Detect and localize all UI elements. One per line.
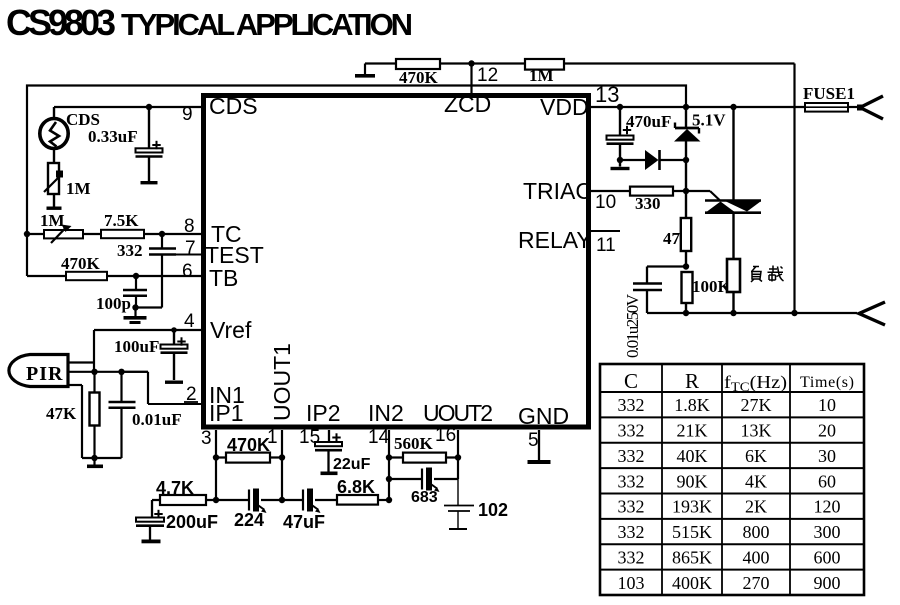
resistor 47: [681, 191, 691, 267]
svg-text:IP2: IP2: [306, 400, 341, 426]
potentiometer 1M vertical: [44, 149, 63, 210]
svg-text:4: 4: [184, 311, 195, 332]
wire TEST stub pin 7: [176, 254, 203, 256]
wire pin 15 22uF: [328, 430, 330, 442]
svg-text:Vref: Vref: [210, 317, 252, 343]
pin number 12: [477, 65, 498, 86]
wire 683 row: [389, 478, 458, 480]
wire TB line pin 6: [27, 275, 203, 277]
svg-text:683: 683: [411, 489, 438, 506]
svg-text:332: 332: [618, 421, 645, 441]
svg-text:224: 224: [234, 510, 264, 530]
pin number 7: [185, 238, 196, 259]
title text CS9803 TYPICAL APPLICATION: [6, 2, 413, 43]
svg-text:R: R: [685, 369, 699, 393]
pin number 15: [299, 427, 320, 448]
label 1M horizontal pot: [40, 211, 65, 230]
label 224: [234, 510, 264, 530]
pin label UOUT1: [269, 343, 295, 421]
label 470uF: [626, 112, 671, 131]
pin label IP1: [209, 400, 244, 426]
resistor 330: [630, 187, 673, 196]
pin label IP2: [306, 400, 341, 426]
pin number 6: [182, 261, 193, 282]
wire pin 5 GND: [538, 430, 540, 460]
label 1M vertical pot: [66, 179, 91, 198]
label 100p: [96, 294, 131, 313]
svg-text:200uF: 200uF: [166, 512, 218, 532]
wire signal row: [152, 499, 389, 501]
svg-text:515K: 515K: [672, 522, 712, 542]
svg-text:IP1: IP1: [209, 400, 244, 426]
wire 332 to ground: [132, 304, 162, 310]
pin label RELAY: [518, 227, 592, 253]
svg-text:Time(s): Time(s): [800, 374, 854, 391]
label 470K left: [61, 254, 101, 273]
svg-text:13K: 13K: [741, 421, 772, 441]
pin number 3: [201, 428, 212, 449]
svg-text:IN2: IN2: [368, 400, 404, 426]
pin number 13: [595, 82, 619, 107]
zener diode 5.1V: [674, 107, 701, 191]
pin number 5: [528, 430, 539, 451]
pin number 4: [184, 311, 195, 332]
label CDS: [66, 110, 100, 129]
pin label GND: [518, 403, 569, 429]
svg-text:332: 332: [618, 547, 645, 567]
svg-text:12: 12: [477, 65, 498, 86]
label load chinese: [751, 266, 784, 283]
node 12 junction: [468, 60, 474, 66]
label 200uF: [166, 512, 218, 532]
label 330: [635, 194, 661, 213]
svg-text:470K: 470K: [227, 435, 270, 455]
label 0.33uF: [88, 127, 138, 146]
node TB junction: [133, 273, 139, 279]
node 47 bottom junction: [683, 263, 689, 269]
resistor 470K bottom: [226, 453, 270, 463]
capacitor 100uF: [161, 330, 188, 384]
svg-text:7.5K: 7.5K: [104, 211, 139, 230]
svg-text:102: 102: [478, 500, 508, 520]
svg-text:3: 3: [201, 428, 212, 449]
svg-text:7: 7: [185, 238, 196, 259]
svg-text:PIR: PIR: [26, 363, 63, 385]
resistor 470K left: [66, 272, 107, 280]
capacitor 224: [249, 489, 267, 514]
capacitor 22uF: [315, 433, 342, 475]
label 332: [117, 241, 143, 260]
resistor 6.8K: [337, 495, 378, 505]
svg-text:332: 332: [618, 471, 645, 491]
svg-text:14: 14: [368, 427, 390, 448]
svg-text:21K: 21K: [677, 421, 708, 441]
pin label IN1: [209, 382, 245, 408]
wire Vref line pin 4: [94, 329, 203, 331]
svg-text:1M: 1M: [40, 211, 65, 230]
capacitor 332: [149, 234, 176, 308]
pin number 16: [435, 425, 456, 446]
svg-text:332: 332: [618, 395, 645, 415]
ground 100p: [124, 308, 147, 325]
svg-text:100p: 100p: [96, 294, 131, 313]
label 560K: [394, 434, 434, 453]
svg-text:4K: 4K: [745, 471, 767, 491]
wire 470K to 1M: [440, 62, 525, 64]
table rows: [618, 395, 841, 593]
label 470K top: [399, 68, 439, 87]
label 1M top: [529, 66, 554, 85]
capacitor 0.01uF: [109, 372, 136, 458]
ground PIR: [87, 458, 103, 468]
svg-text:RELAY: RELAY: [518, 227, 592, 253]
wire pin 16 vertical: [455, 430, 461, 479]
pin label IN2: [368, 400, 404, 426]
pin number 1: [267, 427, 278, 448]
sensor PIR body: [9, 355, 68, 387]
pin label TRIAC: [523, 178, 592, 204]
svg-text:330: 330: [635, 194, 661, 213]
wire PIR top lead: [68, 361, 94, 363]
potentiometer 1M horizontal: [44, 225, 83, 244]
resistor 100K: [682, 272, 693, 313]
label 100K: [692, 277, 732, 296]
svg-text:470uF: 470uF: [626, 112, 671, 131]
capacitor 102: [444, 479, 474, 529]
svg-text:100uF: 100uF: [114, 337, 159, 356]
svg-text:FUSE1: FUSE1: [803, 84, 855, 103]
svg-text:CS9803: CS9803: [6, 2, 116, 43]
svg-text:400: 400: [743, 547, 770, 567]
label PIR: [26, 363, 63, 385]
wire PIR case lead: [68, 385, 82, 458]
label 47K: [46, 404, 77, 423]
svg-text:TYPICAL APPLICATION: TYPICAL APPLICATION: [121, 7, 413, 42]
wire VDD line pin 13: [591, 106, 805, 108]
wire pin 3 vertical: [213, 430, 219, 503]
svg-text:C: C: [624, 369, 638, 393]
label 22uF: [333, 456, 371, 473]
node 0.33uF junction: [146, 104, 152, 110]
svg-text:UOUT2: UOUT2: [423, 400, 493, 426]
svg-text:16: 16: [435, 425, 456, 446]
label 683: [411, 489, 438, 506]
svg-text:TB: TB: [209, 265, 238, 291]
capacitor 200uF: [136, 500, 164, 543]
svg-text:0.01uF: 0.01uF: [132, 410, 182, 429]
svg-text:47: 47: [663, 229, 681, 248]
pin label TEST: [205, 242, 264, 268]
svg-text:11: 11: [596, 235, 616, 256]
svg-text:332: 332: [618, 446, 645, 466]
svg-text:47uF: 47uF: [283, 512, 325, 532]
op-amp U1 CS9803 IC box: [204, 96, 589, 428]
pin label TB: [209, 265, 238, 291]
svg-text:5: 5: [528, 430, 539, 451]
ground top 470K: [355, 64, 375, 78]
node 100uF junction: [171, 327, 177, 333]
pin number 2: [184, 384, 198, 405]
svg-text:120: 120: [814, 497, 841, 517]
resistor 4.7K: [160, 495, 206, 505]
pin number 8: [184, 216, 195, 237]
svg-text:600: 600: [814, 547, 841, 567]
table header: [624, 369, 854, 394]
wire ground to 470K: [365, 62, 396, 64]
svg-text:CDS: CDS: [209, 93, 258, 119]
pin label UOUT2: [423, 400, 493, 426]
svg-text:1M: 1M: [66, 179, 91, 198]
resistor 560K: [403, 453, 446, 463]
svg-text:100K: 100K: [692, 277, 732, 296]
capacitor 100p: [123, 276, 147, 308]
wire TC line pin 8: [27, 233, 203, 235]
svg-text:6: 6: [182, 261, 193, 282]
label 4.7K: [156, 478, 194, 498]
svg-text:4.7K: 4.7K: [156, 478, 194, 498]
label 0.01u250V: [623, 293, 642, 358]
svg-text:47K: 47K: [46, 404, 77, 423]
pin label VDD: [540, 94, 589, 120]
svg-text:30: 30: [818, 446, 836, 466]
pin number 9: [182, 104, 193, 125]
svg-text:6K: 6K: [745, 446, 767, 466]
label 0.01uF: [132, 410, 182, 429]
svg-text:470K: 470K: [61, 254, 101, 273]
svg-text:332: 332: [117, 241, 143, 260]
svg-text:ZCD: ZCD: [444, 91, 491, 117]
svg-text:VDD: VDD: [540, 94, 589, 120]
svg-text:GND: GND: [518, 403, 569, 429]
wire RELAY stub pin 11: [591, 230, 620, 232]
svg-text:2K: 2K: [745, 497, 767, 517]
svg-text:0.33uF: 0.33uF: [88, 127, 138, 146]
svg-text:800: 800: [743, 522, 770, 542]
label 7.5K: [104, 211, 139, 230]
capacitor 470uF: [607, 107, 634, 170]
svg-text:900: 900: [814, 573, 841, 593]
label 6.8K: [337, 477, 375, 497]
label 47uF: [283, 512, 325, 532]
wire TRIAC stub pin 10: [591, 190, 630, 192]
svg-text:193K: 193K: [672, 497, 712, 517]
wire PIR bottom lead: [68, 369, 148, 375]
svg-text:0.01u250V: 0.01u250V: [623, 293, 642, 358]
wire 330 to gate: [673, 188, 720, 200]
svg-text:865K: 865K: [672, 547, 712, 567]
svg-text:1.8K: 1.8K: [674, 395, 710, 415]
capacitor 683: [422, 468, 440, 493]
svg-text:90K: 90K: [677, 471, 708, 491]
diode D1: [617, 150, 689, 170]
svg-text:560K: 560K: [394, 434, 434, 453]
fuse FUSE1: [805, 103, 857, 112]
pin label TC: [211, 221, 242, 247]
svg-text:60: 60: [818, 471, 836, 491]
capacitor 0.01u 250V: [633, 267, 662, 314]
wire 560K row: [389, 456, 458, 458]
node TC junction: [159, 231, 165, 237]
svg-text:40K: 40K: [677, 446, 708, 466]
wire pin 14 vertical: [386, 430, 392, 503]
svg-text:10: 10: [595, 192, 616, 213]
pin number 10: [595, 192, 616, 213]
svg-text:470K: 470K: [399, 68, 439, 87]
resistor load fuzai: [727, 259, 740, 313]
pin label ZCD: [444, 91, 491, 117]
node junction left rail / TC line: [24, 231, 30, 237]
resistor 1M top: [525, 59, 564, 70]
svg-text:6.8K: 6.8K: [337, 477, 375, 497]
resistor 7.5K: [101, 230, 144, 238]
label 470K bottom: [227, 435, 270, 455]
svg-text:UOUT1: UOUT1: [269, 343, 295, 421]
wire pin 2 IN1: [122, 372, 204, 404]
pin label Vref: [210, 317, 252, 343]
triac Q1: [705, 107, 761, 259]
svg-text:300: 300: [814, 522, 841, 542]
svg-text:TRIAC: TRIAC: [523, 178, 592, 204]
terminal AC top: [857, 96, 883, 119]
pin number 11: [596, 235, 616, 256]
svg-text:332: 332: [618, 522, 645, 542]
svg-text:10: 10: [818, 395, 836, 415]
ground pin 5: [528, 460, 551, 464]
svg-text:13: 13: [595, 82, 619, 107]
wire junction to cap: [647, 265, 686, 267]
svg-text:103: 103: [618, 573, 645, 593]
table grid: [600, 364, 864, 595]
label 5.1V: [692, 111, 726, 130]
svg-text:400K: 400K: [672, 573, 712, 593]
pin label CDS: [209, 93, 258, 119]
wire 1M to right rail: [564, 64, 795, 314]
capacitor 0.33uF: [136, 107, 163, 184]
node VDD junctions: [617, 104, 737, 110]
svg-text:332: 332: [618, 497, 645, 517]
svg-text:1M: 1M: [529, 66, 554, 85]
photoresistor CDS: [40, 107, 68, 149]
svg-text:22uF: 22uF: [333, 456, 371, 473]
svg-text:270: 270: [743, 573, 770, 593]
capacitor 47uF: [303, 489, 321, 514]
terminal AC bottom: [859, 302, 885, 325]
wire bottom AC line: [647, 310, 857, 316]
wire 470K bottom row: [216, 456, 282, 458]
wire ZCD stub pin 12: [470, 64, 472, 94]
pin number 14: [368, 427, 390, 448]
label 100uF: [114, 337, 159, 356]
wire Vref down to PIR: [93, 330, 95, 372]
wire PIR ground line: [82, 455, 122, 461]
label FUSE1: [803, 84, 855, 103]
wire pin 9 CDS line: [54, 106, 203, 108]
wire VDD top-left rail: [27, 86, 686, 277]
resistor 470K top: [396, 59, 440, 69]
wire pin 1 vertical: [279, 430, 285, 503]
resistor 47K: [90, 372, 100, 458]
label 102: [478, 500, 508, 520]
svg-text:5.1V: 5.1V: [692, 111, 726, 130]
svg-text:20: 20: [818, 421, 836, 441]
label 47: [663, 229, 681, 248]
svg-text:27K: 27K: [741, 395, 772, 415]
